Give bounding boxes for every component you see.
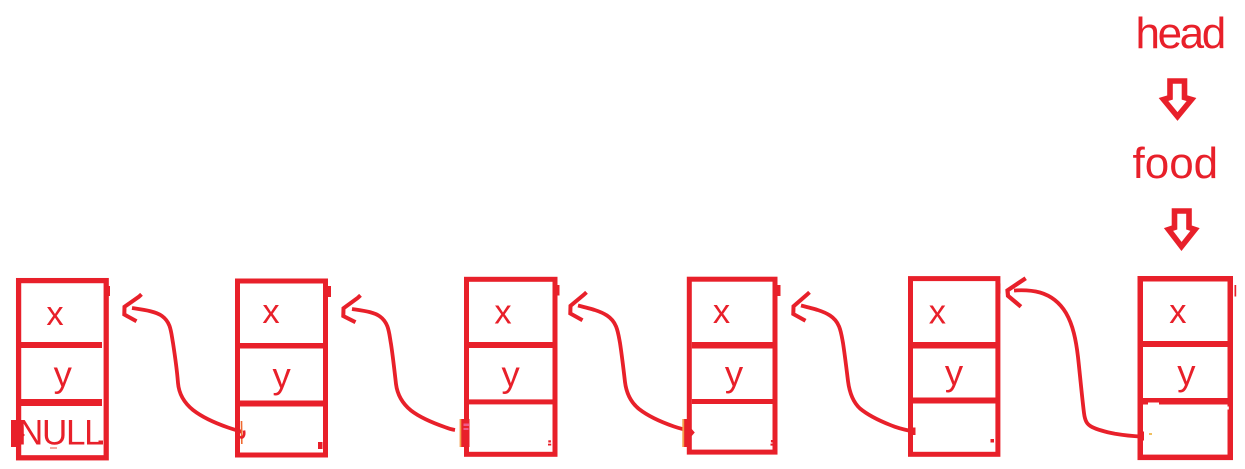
svg-text:head: head [1136,9,1224,58]
svg-text:y: y [1177,352,1196,393]
svg-text:food: food [1133,139,1219,188]
node box 5 notch right edge [997,284,1001,294]
node box 4 dot bottom right [771,440,774,446]
node box 2 divider 1 [240,343,323,349]
curvy arrow 4 tail blob [909,428,916,436]
node box 5 dot bottom right [991,439,995,443]
node box 6 yellow dot artifact [1149,433,1152,435]
curvy arrow 4 (box5 -> box4) shaft [801,306,914,432]
svg-text:x: x [262,293,279,331]
svg-text:y: y [54,354,73,395]
node box 1 notch top right [105,286,110,296]
node box 1 left bar artifact [11,420,16,447]
node box 6 outer [1140,279,1230,458]
node box 4 divider 1 [692,342,775,349]
node box 1 divider 2 [21,399,102,406]
node box 1 L-foot artifact [99,441,104,445]
curvy arrow 3 head [570,292,586,320]
node box 2 notch top right [326,286,332,297]
svg-text:x: x [713,293,730,331]
node box 6 right border inner nick [1227,407,1229,410]
node box 1 pink dash [50,447,57,449]
svg-text:x: x [929,294,946,332]
curvy arrow 2 head [343,295,360,322]
node box 5 divider 2 [913,398,998,404]
node box 4 divider 2 [692,399,775,404]
node box 3 dot bottom right [548,440,551,445]
svg-text:y: y [501,354,520,395]
curvy arrow 4 head [793,292,809,320]
node box 2 outer [238,281,326,455]
node box 4 notch top right [776,285,781,296]
node box 3 divider 2 [469,399,553,404]
block down arrow 2 [1169,211,1196,247]
curvy arrow 1 head [124,294,141,321]
node box 6 tick top right [1235,285,1237,297]
curvy arrow 1 tail hook [240,431,244,438]
svg-text:x: x [46,295,63,333]
node box 6 divider 2 [1143,398,1230,405]
node box 1 outer [19,281,107,458]
node box 2 dot bottom right [318,442,323,449]
block down arrow 1 [1164,81,1192,117]
svg-text:y: y [945,352,964,393]
curvy arrow 3 (box4 -> box3) shaft [578,306,688,431]
curvy arrow 5 (box6 -> box5) shaft [1014,290,1141,436]
node box 2 divider 2 [240,401,323,407]
node box 1 caret artifact [21,431,26,439]
svg-text:y: y [725,353,744,394]
svg-text:x: x [1169,293,1186,331]
svg-text:y: y [272,355,291,396]
node box 5 divider 1 [913,342,998,349]
svg-text:NULL: NULL [18,414,103,453]
curvy arrow 5 head [1008,278,1026,307]
svg-text:x: x [494,294,511,332]
curvy arrow 2 tail blob [460,419,470,447]
node box 1 divider 1 [21,342,102,348]
node box 6 divider 1 [1143,341,1230,347]
node box 5 outer [911,279,998,455]
node box 6 divider 2 white nick [1148,403,1159,406]
curvy arrow 5 tail end [1139,432,1144,441]
curvy arrow 2 (box3 -> box2) shaft [352,309,455,430]
node box 4 outer [689,279,775,452]
curvy arrow 1 tail tick [241,421,243,444]
node box 3 outer [467,279,556,454]
node box 3 notch top right [554,285,560,296]
node box 3 divider 1 [469,342,553,348]
curvy arrow 3 tail blob [682,419,695,447]
curvy arrow 1 (box2 -> box1) shaft [132,308,242,432]
